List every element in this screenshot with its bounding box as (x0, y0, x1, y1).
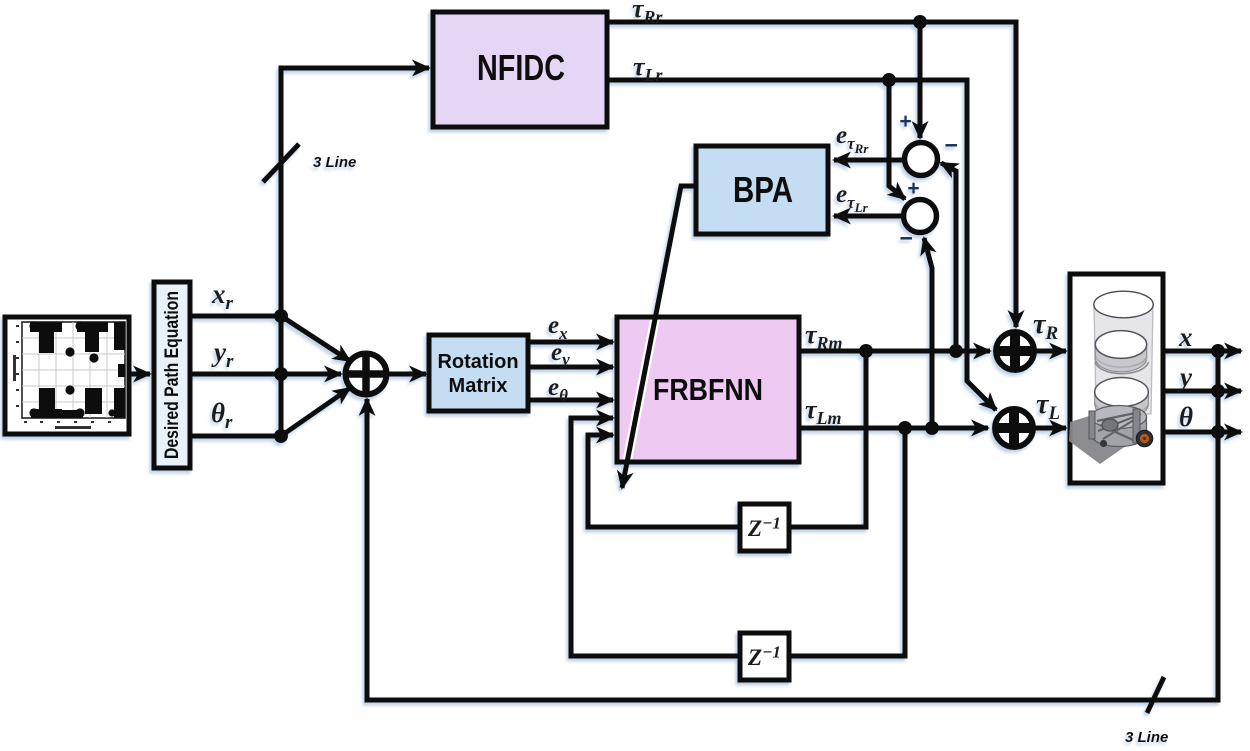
wire tau_Rm from FRBFNN to tau_R summer (799, 349, 990, 354)
node tau_Lm tap for minus (925, 421, 939, 435)
robot caster wheel (1100, 440, 1107, 447)
node tau_Rm tap for minus (949, 344, 963, 358)
svg-text:−: − (944, 132, 957, 158)
wire x_r (190, 314, 281, 319)
summer error circle e (left big plus) (346, 354, 387, 395)
node theta_r junction (274, 429, 288, 443)
path map plot frame (22, 322, 125, 418)
robot lower tray (1095, 378, 1149, 419)
wire tau_L summer to robot (1035, 426, 1066, 431)
svg-text:τRm: τRm (805, 320, 843, 353)
wire y_r (190, 372, 341, 377)
robot middle tray (1095, 331, 1147, 372)
block FRBFNN (617, 317, 799, 462)
svg-text:−: − (899, 225, 912, 251)
summer tau_R circle (big plus) (994, 330, 1036, 372)
svg-text:τLm: τLm (805, 395, 842, 428)
node tau_Lm tap for Z2 loop (898, 421, 912, 435)
svg-text:τL: τL (1036, 389, 1060, 424)
wire tau_Lm from FRBFNN to tau_L summer (799, 426, 988, 431)
node x_r junction (274, 309, 288, 323)
wire tau_Lr branch down into left error circle plus (889, 80, 905, 199)
svg-text:x: x (1178, 322, 1193, 352)
wire path-image to Desired Path Equation (130, 372, 150, 377)
wire error summer to Rotation Matrix (388, 372, 426, 377)
wire robot output theta (1163, 430, 1241, 435)
path map grid (22, 322, 125, 418)
wire tau_R summer to robot (1036, 349, 1066, 354)
node y_r junction (274, 367, 288, 381)
comparator circle e_tauLr (904, 200, 937, 233)
summer tau_L circle (big plus) (993, 407, 1035, 449)
svg-text:BPA: BPA (733, 169, 793, 210)
svg-text:Rotation: Rotation (437, 351, 518, 373)
svg-text:eτLr: eτLr (836, 181, 869, 215)
wire big 3-line feedback from outputs to error summer (367, 351, 1218, 700)
svg-text:Matrix: Matrix (449, 375, 508, 397)
node on tau_Rr (913, 15, 927, 29)
svg-text:Desired Path Equation: Desired Path Equation (162, 291, 183, 459)
block BPA (696, 146, 828, 234)
wire theta_r diagonal into error summer (281, 388, 350, 436)
node on y output (1211, 384, 1225, 398)
robot tube body (1094, 305, 1153, 414)
wire 3-line bus up to NFIDC (281, 68, 429, 436)
svg-text:eτRr: eτRr (836, 122, 869, 156)
block Z^-1 delay 2 (740, 633, 789, 680)
svg-text:FRBFNN: FRBFNN (653, 372, 763, 407)
svg-text:+: + (899, 110, 911, 133)
svg-text:τR: τR (1033, 309, 1058, 344)
wire x_r diagonal into error summer (281, 316, 350, 361)
svg-text:NFIDC: NFIDC (477, 47, 565, 88)
robot base chassis (1089, 406, 1147, 447)
path map obstacles (30, 322, 125, 418)
node on x output (1211, 344, 1225, 358)
robot shadow (1069, 411, 1133, 464)
comparator circle e_tauRr (905, 143, 938, 176)
svg-text:τRr: τRr (632, 0, 664, 27)
wire tau_Rr branch down into right error circle plus (918, 22, 923, 138)
wire minus feedback from tau_Rm line up to first error circle (941, 163, 956, 351)
wire tau_Rr from NFIDC to right then down into tau_R summer (607, 22, 1016, 327)
wire Z1 delay loop (588, 351, 866, 527)
svg-text:3 Line: 3 Line (1125, 729, 1168, 746)
wire e_x (528, 340, 613, 345)
block Z^-1 delay 1 (740, 504, 789, 551)
svg-text:yr: yr (211, 337, 234, 372)
svg-text:τLr: τLr (633, 52, 664, 85)
path map axis ticks (13, 325, 111, 429)
svg-text:y: y (1177, 362, 1193, 392)
svg-text:θr: θr (211, 398, 233, 433)
wire e_y (528, 365, 613, 370)
block Rotation Matrix (429, 335, 528, 411)
wire BPA adaptation diagonal into FRBFNN (622, 186, 681, 488)
node on theta output (1211, 425, 1225, 439)
wire Z2 delay loop (571, 418, 905, 656)
wire tau_Lr from NFIDC to right then down into tau_L summer (607, 80, 996, 410)
block desired path map image (5, 317, 129, 434)
wire minus feedback from tau_Lm line up to second error circle (924, 238, 932, 428)
robot top opening ellipse (1094, 291, 1153, 318)
wire robot output x (1163, 349, 1241, 354)
robot drive wheel (1136, 430, 1152, 446)
wire e_tauRr circle output into BPA (834, 158, 904, 163)
svg-text:θ: θ (1179, 402, 1193, 432)
svg-text:+: + (907, 177, 919, 200)
slash 3-line marker bottom (1147, 677, 1164, 713)
wire e_theta (528, 398, 613, 403)
wire e_tauLr circle output into BPA (834, 214, 903, 219)
wire robot output y (1163, 389, 1241, 394)
block robot plant (1070, 274, 1163, 483)
svg-text:eθ: eθ (548, 374, 568, 405)
robot tray lower lip (1095, 362, 1149, 374)
svg-text:3 Line: 3 Line (313, 154, 356, 171)
node on tau_Lr (882, 73, 896, 87)
svg-text:xr: xr (211, 279, 234, 314)
slash 3-line marker top (263, 144, 299, 182)
path map waypoint dots (29, 321, 115, 417)
block Desired Path Equation (154, 282, 190, 468)
node tau_Rm tap for Z1 loop (859, 344, 873, 358)
wire theta_r (190, 434, 281, 439)
block NFIDC (433, 12, 607, 127)
